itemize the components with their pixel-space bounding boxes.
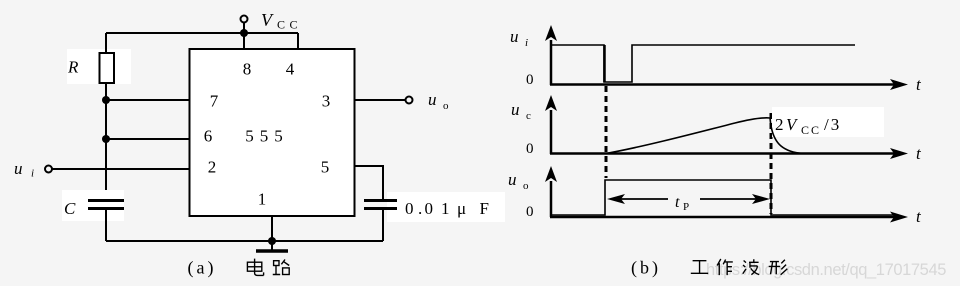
svg-text:u: u [508, 170, 517, 189]
wire: top rail from resistor top to pin4 drop [106, 32, 298, 34]
label tP [675, 194, 689, 213]
junction node pin7 [102, 96, 110, 104]
value label 0.01uF [405, 199, 489, 218]
wire: pin 3 to output terminal [355, 99, 405, 101]
capacitor 0.01uF plates [364, 201, 397, 209]
svg-text:0: 0 [405, 199, 414, 218]
svg-text:7: 7 [210, 92, 219, 111]
svg-text:0: 0 [425, 199, 434, 218]
output terminal circle [406, 97, 413, 104]
svg-text:1: 1 [258, 190, 267, 209]
svg-text:4: 4 [286, 60, 295, 79]
caption dian-lu (circuit) drawn strokes [247, 259, 289, 276]
uo waveform trace [551, 180, 893, 215]
svg-text:2: 2 [775, 115, 784, 134]
wire: below C to bottom rail [105, 210, 107, 241]
svg-text:3: 3 [322, 92, 331, 111]
svg-text:8: 8 [243, 60, 252, 79]
svg-text:u: u [510, 27, 519, 46]
wire: below 0.01uF cap down to bottom rail [382, 210, 384, 241]
input terminal circle [45, 166, 52, 173]
wire: bottom rail [106, 240, 383, 242]
svg-text:https://blog.csdn.net/qq_17017: https://blog.csdn.net/qq_17017545 [706, 261, 946, 279]
svg-text:(b): (b) [631, 258, 661, 279]
wire: ui to pin 2 [52, 168, 190, 170]
ui axis vertical with arrow [545, 25, 557, 85]
svg-text:(a): (a) [188, 258, 217, 279]
svg-text:1: 1 [441, 199, 450, 218]
svg-text:555: 555 [245, 127, 289, 146]
tP arrow right segment [700, 194, 770, 204]
ground symbol [256, 241, 288, 251]
Vcc terminal circle [241, 16, 248, 23]
uc discharge curve [770, 118, 803, 154]
svg-text:F: F [480, 199, 489, 218]
svg-text:c: c [526, 110, 531, 122]
svg-text:o: o [523, 180, 529, 192]
svg-text:2: 2 [208, 158, 217, 177]
white patch behind R label [67, 49, 131, 84]
svg-text:6: 6 [204, 127, 213, 146]
label 2Vcc/3 [775, 115, 841, 137]
svg-text:0: 0 [526, 204, 534, 220]
caption gong-zuo-bo-xing (working waveforms) drawn strokes [691, 259, 788, 275]
label ui (waveform) [510, 27, 528, 49]
IC 555 box [190, 49, 355, 216]
capacitor C plates [88, 201, 124, 209]
junction dot at Vcc rail [240, 29, 248, 37]
svg-text:0: 0 [526, 72, 534, 88]
uc charging curve [606, 118, 770, 154]
label uc (waveform) [511, 100, 531, 122]
svg-text:R: R [67, 58, 79, 77]
junction node pin6 [102, 135, 110, 143]
label ui input [14, 159, 34, 180]
svg-text:i: i [31, 168, 34, 180]
label Vcc [261, 10, 302, 32]
svg-text:0: 0 [526, 141, 534, 157]
white patch behind C label [62, 190, 124, 221]
svg-text:5: 5 [321, 158, 330, 177]
svg-text:i: i [525, 37, 528, 49]
svg-text:.: . [418, 199, 422, 218]
wire: pin 4 vertical [297, 33, 299, 49]
wire: pin 1 vertical [271, 216, 273, 241]
svg-text:/3: /3 [824, 115, 841, 134]
svg-text:μ: μ [457, 199, 466, 218]
wire: pin 8 vertical [243, 33, 245, 49]
label uo output [428, 90, 449, 112]
ui waveform trace [551, 45, 855, 82]
wire: Vcc stub [243, 23, 245, 34]
wire: left rail upper (top rail to resistor) [105, 33, 107, 53]
svg-text:CC: CC [801, 123, 821, 137]
wire: pin 5 right then down [355, 166, 383, 200]
svg-text:CC: CC [277, 18, 302, 32]
svg-text:C: C [64, 199, 76, 218]
resistor R body [100, 53, 115, 83]
ui axis horizontal with arrow [550, 79, 908, 90]
uo axis horizontal with arrow [550, 212, 908, 223]
svg-text:o: o [443, 100, 449, 112]
wire: to pin 6 [106, 138, 190, 140]
dashed line at trigger time [605, 86, 608, 178]
wire: to pin 7 [106, 99, 190, 101]
white patch behind 2Vcc/3 label [772, 107, 884, 137]
svg-text:u: u [14, 159, 23, 178]
junction dot at ground [268, 237, 276, 245]
tP arrow left segment [607, 194, 668, 204]
wire: left rail between resistor and capacitor C [105, 83, 107, 200]
white patch behind 0.01uF label [387, 192, 505, 222]
uo axis vertical with arrow [545, 166, 557, 217]
uc axis vertical with arrow [545, 95, 557, 154]
svg-text:u: u [511, 100, 520, 119]
dashed line at pulse end time [770, 113, 773, 214]
svg-text:P: P [683, 201, 689, 213]
uc axis horizontal with arrow [550, 148, 908, 159]
label uo (waveform) [508, 170, 529, 192]
svg-text:u: u [428, 90, 437, 109]
svg-text:t: t [675, 194, 680, 211]
